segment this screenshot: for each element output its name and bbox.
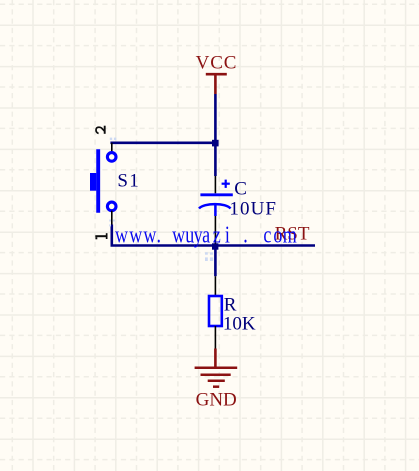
watermark ghost specks xyxy=(109,138,213,261)
power symbol VCC xyxy=(206,74,227,94)
svg-text:c: c xyxy=(263,221,271,248)
pin number 1 xyxy=(95,233,107,239)
svg-text:C: C xyxy=(234,178,247,199)
wire junction to resistor xyxy=(214,249,217,276)
svg-text:o: o xyxy=(273,221,282,248)
switch S1 xyxy=(90,143,116,225)
svg-text:10K: 10K xyxy=(223,313,256,334)
ground xyxy=(195,368,238,387)
resistor R xyxy=(209,276,222,348)
svg-text:i: i xyxy=(225,221,230,248)
svg-text:z: z xyxy=(213,221,221,248)
svg-text:.: . xyxy=(243,221,248,248)
svg-text:VCC: VCC xyxy=(196,53,238,74)
junction bottom xyxy=(212,243,218,249)
wire S1 pin2 to junction xyxy=(110,142,216,145)
svg-text:w: w xyxy=(172,221,186,248)
watermark www.wuyazi.com xyxy=(115,221,297,248)
wire VCC to junction xyxy=(214,94,217,176)
pin number 2 xyxy=(96,126,105,134)
svg-text:R: R xyxy=(224,294,237,315)
capacitor C xyxy=(199,176,233,244)
svg-text:m: m xyxy=(283,221,297,248)
svg-text:10UF: 10UF xyxy=(229,198,277,219)
svg-text:a: a xyxy=(202,221,210,248)
svg-text:www.: www. xyxy=(115,221,162,248)
wire resistor to ground xyxy=(214,349,217,368)
svg-text:S1: S1 xyxy=(117,171,140,192)
junction top xyxy=(212,140,219,147)
svg-text:GND: GND xyxy=(196,389,237,410)
wire RST net xyxy=(112,225,315,246)
